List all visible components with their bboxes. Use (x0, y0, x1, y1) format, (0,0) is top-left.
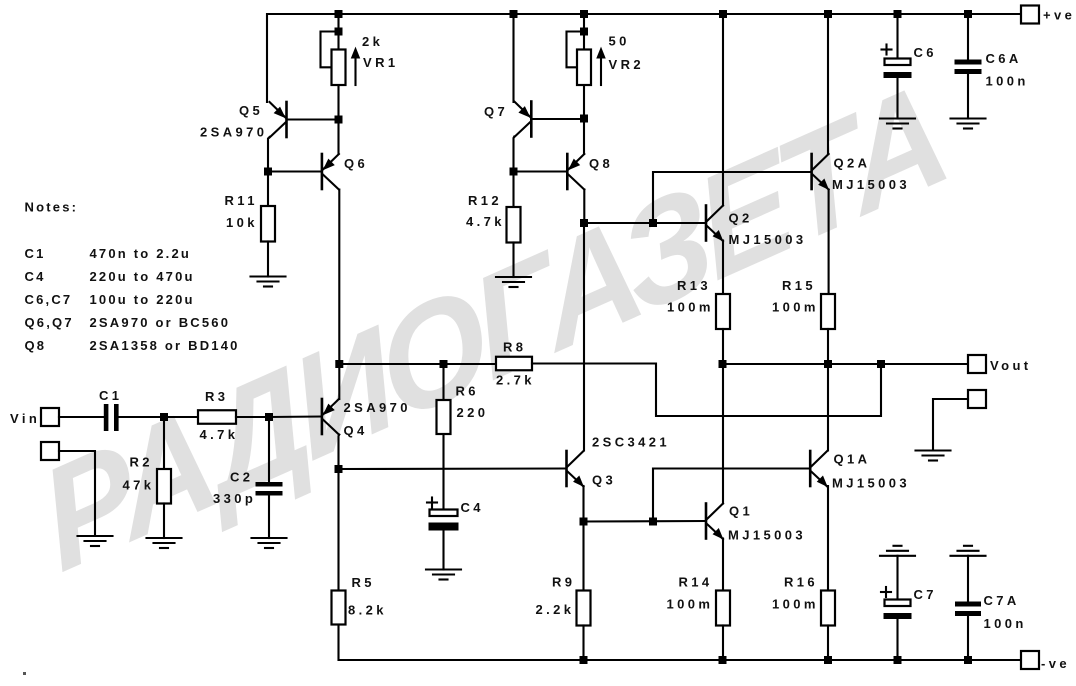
svg-text:R15: R15 (782, 278, 816, 293)
wire R16 to -ve rail (827, 626, 829, 661)
svg-text:MJ15003: MJ15003 (729, 232, 807, 247)
svg-text:Vout: Vout (990, 358, 1032, 373)
resistor R6 (437, 400, 451, 434)
ground below R11 (251, 277, 286, 287)
ground above C7 (inverted) (880, 546, 915, 556)
junction R9 on -ve rail (580, 656, 588, 664)
svg-text:Q8: Q8 (25, 338, 47, 353)
terminal Vout return (968, 390, 986, 408)
wire ground to C7A (967, 556, 969, 602)
junction R16 on -ve rail (824, 656, 832, 664)
svg-text:C2: C2 (230, 470, 253, 485)
wire node G to R2 (163, 417, 165, 469)
svg-text:R12: R12 (468, 193, 502, 208)
svg-text:47k: 47k (123, 478, 155, 493)
wire R15 to Vout rail (827, 329, 829, 364)
wire VR1 wiper bypass (321, 32, 339, 68)
wire Vout rail to Q1A collector (827, 364, 829, 451)
wire Q1 emitter to R14 (722, 539, 724, 591)
wire Q5 collector down (268, 137, 270, 172)
svg-text:+ve: +ve (1043, 8, 1075, 23)
svg-text:C1: C1 (99, 388, 122, 403)
svg-text:C1: C1 (25, 246, 46, 261)
svg-text:10k: 10k (226, 215, 258, 230)
svg-text:MJ15003: MJ15003 (832, 177, 910, 192)
wire node H to Q4 base (269, 415, 321, 418)
wire node F2 up and right to Q1A base (653, 469, 809, 522)
wire Vin to C1 (59, 416, 104, 418)
wire VR1 bottom to node A (337, 85, 339, 154)
transistor Q2 (706, 206, 723, 242)
junction R13/R14 on Vout rail (719, 360, 727, 368)
junction C6 on +ve rail (894, 10, 902, 18)
svg-text:R5: R5 (352, 575, 375, 590)
resistor R2 (157, 469, 171, 504)
junction R15/R16 on Vout rail (824, 360, 832, 368)
wire Q7 base to node C (531, 118, 584, 120)
svg-text:C7A: C7A (984, 593, 1020, 608)
junction node J (Q4 collector / R5 / Q3 base) (335, 465, 343, 473)
svg-text:C4: C4 (25, 269, 46, 284)
svg-text:100m: 100m (667, 300, 714, 315)
wire C6 to ground (896, 78, 898, 119)
ground below C2 (252, 538, 287, 548)
svg-text:Q2: Q2 (729, 211, 753, 226)
ground at Vout return (916, 451, 951, 461)
label C6 polarity + (882, 45, 892, 55)
wire R6 top (442, 364, 444, 400)
stray mark bottom left (23, 672, 26, 675)
wire node H to C2 (268, 417, 270, 482)
wire R14 to -ve rail (722, 626, 724, 661)
wire node E2 up and right to Q2A base (653, 172, 811, 223)
wire Q8 collector down to node E (583, 190, 585, 224)
wire C2 to ground (268, 496, 270, 539)
wire Q4 emitter up to feedback node (338, 364, 340, 399)
wire C7 to -ve rail (896, 619, 898, 661)
wire Vout return to ground (933, 399, 968, 450)
wire +ve supply rail (top) (267, 14, 1021, 102)
resistor R9 (577, 591, 591, 626)
wire node D to R12 (512, 172, 514, 208)
wire Q6 base from node B (268, 170, 321, 172)
ground below C6 (880, 119, 915, 129)
svg-text:Q8: Q8 (589, 156, 613, 171)
svg-text:Q5: Q5 (239, 103, 263, 118)
wire Q2A emitter to R15 (828, 190, 830, 295)
wire node B to R11 (267, 172, 269, 207)
svg-text:Q2A: Q2A (834, 156, 871, 171)
svg-text:2SA970 or BC560: 2SA970 or BC560 (90, 315, 231, 330)
ground input return (78, 536, 113, 546)
svg-text:VR2: VR2 (609, 57, 645, 72)
svg-text:MJ15003: MJ15003 (728, 528, 806, 543)
wire node F to Q1 base (584, 520, 706, 523)
resistor R13 (716, 294, 730, 329)
potentiometer VR2 wiper arrow (598, 50, 604, 86)
wire VR2 top tap (583, 14, 585, 50)
ground below C4 (426, 570, 461, 580)
junction VR2 wiper tap (580, 28, 588, 36)
wire ground to C7 (896, 556, 898, 600)
svg-text:R8: R8 (503, 340, 526, 355)
svg-text:220: 220 (457, 405, 489, 420)
svg-text:2.2k: 2.2k (536, 602, 575, 617)
transistor Q4 (322, 399, 339, 435)
svg-text:MJ15003: MJ15003 (832, 476, 910, 491)
svg-text:220u to 470u: 220u to 470u (90, 269, 195, 284)
svg-text:C6A: C6A (986, 51, 1022, 66)
wire R13 to Vout rail (722, 329, 724, 364)
wire R8 to Vout (jog) (532, 364, 881, 417)
svg-text:Q3: Q3 (592, 473, 616, 488)
potentiometer VR1 body (332, 50, 346, 86)
svg-text:R6: R6 (456, 384, 479, 399)
wire node J to R5 (337, 469, 339, 591)
svg-text:2SA970: 2SA970 (344, 400, 411, 415)
junction feedback node on Q6 collector line (335, 360, 343, 368)
svg-text:R13: R13 (677, 278, 711, 293)
wire Q2 emitter to R13 (722, 241, 724, 295)
wire Vin return to ground (59, 451, 95, 536)
junction node C (VR2 / Q7 base / Q8 emitter) (580, 115, 588, 123)
svg-text:C6: C6 (914, 45, 937, 60)
wire VR2 wiper bypass (567, 32, 585, 68)
junction Q2 collector column on +ve rail (719, 10, 727, 18)
wire R3 to node H (236, 416, 269, 418)
capacitor C7A (plates) (955, 602, 981, 617)
transistor Q3 (567, 451, 584, 487)
wire R2 to ground (163, 504, 165, 539)
resistor R12 (507, 207, 521, 243)
terminal +ve (1021, 6, 1039, 24)
svg-text:100m: 100m (772, 597, 819, 612)
capacitor C7 (884, 600, 912, 620)
transistor Q7 (514, 102, 531, 138)
label C4 polarity + (427, 498, 437, 508)
resistor R5 (332, 591, 346, 625)
wire R11 to ground (267, 242, 269, 277)
svg-text:2SA1358 or BD140: 2SA1358 or BD140 (90, 338, 240, 353)
resistor R8 (496, 357, 532, 371)
wire Q7 collector down (512, 137, 515, 172)
junction node H (R3 / C2 / Q4 base) (265, 413, 273, 421)
svg-text:2SC3421: 2SC3421 (592, 435, 670, 450)
junction Q7 emitter on +ve rail (510, 10, 518, 18)
wire Vout rail to Q1 collector (722, 364, 724, 504)
svg-text:C4: C4 (461, 500, 484, 515)
svg-text:R16: R16 (784, 575, 818, 590)
terminal Vin (41, 408, 59, 426)
wire VR1 top tap (337, 14, 339, 50)
wire C1 to node G (119, 416, 164, 418)
ground below R2 (147, 538, 182, 548)
svg-text:100u to 220u: 100u to 220u (90, 292, 195, 307)
svg-text:Q6: Q6 (344, 156, 368, 171)
wire R9 to -ve rail (582, 626, 584, 661)
junction R6 top on feedback wire (440, 360, 448, 368)
wire Q1A emitter to R16 (827, 486, 829, 591)
junction node E2 on Q2 base wire (649, 219, 657, 227)
svg-text:2.7k: 2.7k (496, 373, 535, 388)
junction C6A on +ve rail (964, 10, 972, 18)
wire +ve rail to C6 (896, 14, 898, 59)
svg-text:Q4: Q4 (344, 423, 368, 438)
junction VR1 wiper tap (335, 28, 343, 36)
svg-text:100n: 100n (986, 74, 1029, 89)
wire R12 to ground (512, 243, 514, 278)
junction node B (Q5 collector / Q6 base / R11) (264, 168, 272, 176)
wire node E to Q2 base (584, 222, 705, 224)
potentiometer VR1 wiper arrow (352, 50, 358, 86)
svg-text:R14: R14 (679, 575, 713, 590)
wire Q5 base to node A (287, 118, 339, 120)
capacitor C6A (plates) (955, 60, 982, 75)
wire R6 to C4 (442, 434, 444, 510)
junction Q2A collector column on +ve rail (824, 10, 832, 18)
junction node G (C1 / R2 / R3) (160, 413, 168, 421)
svg-text:8.2k: 8.2k (348, 603, 387, 618)
terminal Vin return (41, 442, 59, 460)
transistor Q5 (270, 102, 287, 138)
capacitor C6 (884, 59, 912, 79)
junction VR1 top on +ve rail (335, 10, 343, 18)
label C7 polarity + (881, 587, 891, 597)
wire C6A to ground (967, 74, 969, 119)
wire Q7 emitter from +ve rail (512, 14, 514, 102)
svg-text:-ve: -ve (1041, 656, 1070, 671)
transistor Q8 (567, 154, 584, 190)
svg-text:R11: R11 (225, 193, 258, 208)
svg-text:100m: 100m (772, 300, 819, 315)
svg-text:4.7k: 4.7k (466, 214, 505, 229)
svg-text:VR1: VR1 (363, 55, 399, 70)
ground above C7A (inverted) (951, 546, 986, 556)
wire -ve supply rail (bottom) (339, 625, 1022, 661)
wire Q8 base from node D (514, 170, 567, 172)
wire +ve rail to Q2 collector (722, 14, 724, 206)
junction R8 feedback on Vout rail (877, 360, 885, 368)
capacitor C4 (429, 510, 459, 531)
svg-text:330p: 330p (213, 491, 256, 506)
svg-text:Q7: Q7 (484, 104, 508, 119)
transistor Q1 (706, 504, 723, 540)
wire +ve rail to C6A (967, 14, 969, 60)
capacitor C2 (plates) (256, 482, 283, 496)
potentiometer VR2 body (577, 50, 591, 86)
wire Vout rail (723, 363, 969, 365)
wire node E down to Q3 collector (583, 223, 585, 451)
junction node F (Q3 emitter / R9 / Q1 base) (580, 518, 588, 526)
capacitor C1 (plates) (104, 404, 119, 431)
resistor R14 (716, 591, 730, 626)
wire node G to R3 (164, 416, 198, 418)
wire C7A to -ve rail (967, 616, 969, 660)
junction node E (Q8 collector / drive rail) (580, 219, 588, 227)
junction node D (Q7 collector / Q8 base / R12) (510, 168, 518, 176)
svg-text:C7: C7 (914, 587, 937, 602)
wire feedback node to R6 top (339, 363, 496, 365)
wire node J to Q3 base (339, 467, 566, 470)
junction VR2 top on +ve rail (580, 10, 588, 18)
svg-text:R3: R3 (205, 389, 228, 404)
resistor R11 (261, 206, 275, 242)
wire node F to R9 (582, 522, 584, 591)
transistor Q6 (322, 154, 339, 190)
ground below R12 (496, 277, 531, 287)
svg-text:4.7k: 4.7k (200, 427, 239, 442)
resistor R3 (198, 410, 236, 424)
transistor Q1A (810, 451, 827, 487)
svg-text:100n: 100n (984, 616, 1027, 631)
svg-text:Q1A: Q1A (834, 452, 871, 467)
svg-text:R9: R9 (552, 575, 575, 590)
svg-text:C6,C7: C6,C7 (25, 292, 73, 307)
wire VR2 bottom to node C (583, 85, 585, 154)
wire +ve rail to Q2A collector (827, 14, 829, 154)
resistor R16 (821, 591, 835, 626)
svg-text:Vin: Vin (10, 411, 40, 426)
svg-text:Notes:: Notes: (25, 200, 79, 215)
wire Q6 collector down left rail (338, 190, 340, 365)
junction node F2 on Q1 base wire (649, 518, 657, 526)
junction C7 on -ve rail (894, 656, 902, 664)
svg-text:470n to 2.2u: 470n to 2.2u (90, 246, 192, 261)
transistor Q2A (812, 154, 829, 190)
ground below C6A (951, 119, 986, 129)
wire Q3 emitter down to node F (582, 486, 584, 522)
wire C4 to ground (442, 529, 444, 570)
svg-text:100m: 100m (667, 597, 714, 612)
resistor R15 (821, 294, 835, 329)
wire Q4 collector down to node J (337, 435, 340, 470)
junction node A (VR1 / Q5 base / Q6 emitter) (335, 116, 343, 124)
svg-text:2SA970: 2SA970 (200, 125, 267, 140)
svg-text:R2: R2 (130, 455, 153, 470)
terminal -ve (1021, 651, 1039, 669)
svg-text:50: 50 (609, 34, 630, 49)
terminal Vout (968, 355, 986, 373)
svg-text:Q6,Q7: Q6,Q7 (25, 315, 74, 330)
watermark (24, 51, 959, 606)
svg-text:Q1: Q1 (729, 504, 753, 519)
junction R14 on -ve rail (719, 656, 727, 664)
svg-text:2k: 2k (362, 34, 383, 49)
junction C7A on -ve rail (964, 656, 972, 664)
